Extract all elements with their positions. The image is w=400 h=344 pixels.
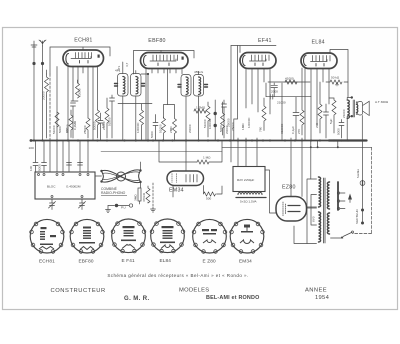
svg-text:1,5MΩ: 1,5MΩ: [196, 106, 206, 110]
capacitor C7: [153, 115, 158, 141]
svg-text:200: 200: [315, 123, 319, 128]
resistor R11: [206, 102, 210, 137]
trimmer capacitor CV1: [49, 199, 56, 210]
svg-text:RADIO-PHONO: RADIO-PHONO: [101, 191, 126, 195]
svg-text:5+2Ω 1,5VA: 5+2Ω 1,5VA: [240, 200, 258, 204]
svg-text:100000: 100000: [247, 117, 251, 128]
antenna input A2: [39, 40, 46, 141]
resistor R22 1Mohm: [197, 141, 222, 165]
svg-text:0,1MΩ: 0,1MΩ: [73, 120, 77, 130]
svg-text:EBF80: EBF80: [148, 38, 165, 44]
capacitor C5: [110, 95, 115, 138]
svg-text:21000: 21000: [342, 109, 346, 118]
svg-text:4,7: 4,7: [125, 62, 129, 67]
svg-text:EL84: EL84: [160, 258, 172, 263]
wire screen line: [268, 81, 310, 83]
wire EM34 grid: [173, 141, 186, 198]
resistor R9: [162, 117, 166, 141]
resistor R23 500: [204, 186, 223, 197]
resistor R19: [329, 98, 336, 133]
svg-text:EL84: EL84: [312, 40, 325, 46]
capacitor C13 21000: [270, 95, 273, 100]
wire long left of EF41: [230, 46, 232, 163]
svg-text:6V3: 6V3: [312, 216, 316, 222]
node mains taps: [310, 141, 339, 180]
svg-text:2MΩ: 2MΩ: [169, 126, 173, 133]
tube EBF80 envelope: [141, 53, 189, 69]
svg-text:EM34: EM34: [239, 259, 252, 264]
svg-text:5000: 5000: [38, 164, 42, 171]
svg-text:P.U: P.U: [121, 206, 126, 210]
wire T3 secondary: [356, 102, 358, 114]
resistor R3: [76, 80, 80, 98]
filter choke L1: [238, 193, 262, 195]
tube labels: [74, 37, 325, 193]
resistor R6: [96, 110, 100, 138]
wire bloc feeds: [50, 141, 88, 173]
antenna input A1: [31, 41, 37, 141]
svg-text:CONSTRUCTEUR: CONSTRUCTEUR: [51, 288, 106, 294]
svg-text:E F41: E F41: [122, 258, 135, 263]
svg-text:MODELES: MODELES: [179, 287, 209, 293]
resistor R4: [69, 110, 73, 138]
svg-text:3MΩ: 3MΩ: [134, 194, 138, 201]
capacitor C2: [71, 103, 76, 138]
svg-text:51000: 51000: [159, 124, 163, 133]
svg-text:470kΩ: 470kΩ: [142, 192, 146, 202]
svg-text:455c/s: 455c/s: [194, 70, 204, 74]
svg-text:2000: 2000: [271, 90, 278, 94]
svg-text:EBF80: EBF80: [79, 259, 94, 264]
svg-text:20000: 20000: [102, 121, 106, 130]
svg-text:1954: 1954: [315, 295, 330, 301]
resistor R18: [318, 82, 322, 133]
capacitor C15 5000: [339, 120, 344, 139]
svg-text:5000: 5000: [337, 128, 341, 135]
svg-text:25000: 25000: [83, 125, 87, 134]
output transformer T3: [347, 96, 358, 118]
svg-text:310000: 310000: [280, 123, 284, 134]
wire EBF80 top pin: [160, 51, 162, 53]
wire EF41 pin drops: [246, 69, 270, 115]
node T1 top: [141, 73, 149, 141]
node PU terminals: [214, 100, 217, 141]
ground G2: [151, 207, 156, 212]
svg-text:ANNEE: ANNEE: [305, 287, 327, 293]
resistor R20 3Mohm: [138, 188, 141, 204]
svg-text:100000: 100000: [136, 122, 140, 133]
tube EL84 envelope: [301, 53, 337, 69]
phono jack PU: [108, 204, 133, 207]
wire mains feed: [362, 141, 364, 181]
resistor R5: [86, 118, 90, 138]
wire EL84 top lead: [330, 50, 348, 98]
svg-text:ECH81: ECH81: [39, 259, 55, 264]
switch S1: [331, 209, 365, 239]
svg-text:SECTEUR: SECTEUR: [355, 208, 359, 224]
chassis bus: [30, 139, 367, 142]
filter capacitor block 2x50uF: [233, 138, 265, 192]
wire EM34 feed: [159, 141, 197, 163]
tube EM34 envelope: [167, 171, 204, 186]
resistor R12: [221, 102, 225, 135]
resistor R10: [168, 105, 177, 142]
svg-text:780: 780: [259, 127, 263, 132]
tuning gang (dial drive): [100, 169, 141, 183]
node T4 taps: [337, 192, 345, 210]
svg-text:Schéma général des récepteurs: Schéma général des récepteurs « Bel-Ami …: [107, 273, 248, 278]
svg-text:EZ80: EZ80: [282, 185, 296, 191]
tube EF41 envelope: [240, 53, 276, 69]
svg-text:21000: 21000: [277, 101, 286, 105]
resistor R24: [194, 106, 206, 114]
wire heater run: [101, 151, 222, 153]
socket EL84: [150, 219, 185, 253]
oscillator bloc box: [35, 172, 95, 199]
wire heater run: [294, 226, 307, 244]
wire T2 leads: [186, 72, 199, 141]
capacitor C4: [93, 67, 103, 141]
wire EL84 pin drops: [305, 69, 329, 141]
wire EZ80 anode leads: [291, 138, 302, 197]
schematic small value labels: [29, 62, 389, 224]
socket EM34: [230, 219, 265, 253]
svg-text:1MΩ: 1MΩ: [241, 123, 245, 130]
svg-text:100: 100: [29, 146, 34, 150]
svg-text:fusible: fusible: [356, 169, 360, 178]
power transformer T4: [319, 177, 339, 243]
svg-text:20000: 20000: [42, 91, 46, 100]
svg-text:G.45002M: G.45002M: [66, 185, 81, 189]
svg-text:10000: 10000: [78, 88, 82, 97]
ground G1: [106, 206, 111, 213]
wire choke bar: [236, 197, 266, 199]
tube ECH81 envelope: [63, 50, 104, 67]
resistor R7: [105, 98, 109, 138]
svg-text:5µF: 5µF: [329, 118, 333, 124]
svg-text:R2V 2x50µF: R2V 2x50µF: [237, 178, 254, 182]
wire ECH81 top pin: [82, 47, 84, 50]
svg-text:BEL-AMI et RONDO: BEL-AMI et RONDO: [206, 295, 260, 301]
wire EZ80 heater: [307, 207, 317, 209]
svg-text:E Z80: E Z80: [203, 259, 216, 264]
wire EF41 grid return: [234, 46, 238, 141]
wire R1: [46, 70, 48, 138]
wire frame around EBF80: [134, 51, 195, 75]
svg-text:0,1µF: 0,1µF: [291, 126, 295, 134]
wire T4 left taps: [307, 179, 317, 244]
wire gang links: [95, 176, 141, 188]
capacitor C11: [222, 100, 227, 138]
svg-text:1 MΩ: 1 MΩ: [203, 156, 211, 160]
resistor R1: [45, 74, 49, 96]
tube EZ80 envelope: [276, 197, 307, 222]
wire EBF80 pin drops: [146, 69, 182, 141]
svg-text:A.T 360Ω: A.T 360Ω: [375, 100, 389, 104]
wire dashed AVC: [152, 183, 154, 207]
wire frame around ECH81: [50, 47, 110, 141]
socket ECH81: [30, 219, 65, 253]
wire ECH81 pin drops: [57, 67, 98, 141]
svg-text:5000: 5000: [150, 131, 154, 138]
wire EZ80 frame: [265, 170, 276, 213]
capacitor C14: [324, 104, 329, 138]
wire T1 leads: [118, 62, 152, 141]
voltage selector plug: [348, 194, 352, 200]
trimmer capacitor CV2: [79, 199, 86, 210]
svg-text:5000: 5000: [219, 125, 223, 132]
wire gang to detector: [140, 162, 142, 171]
svg-text:50000: 50000: [93, 121, 97, 130]
svg-text:25000: 25000: [231, 122, 235, 131]
resistor R16: [262, 98, 266, 131]
wire mains run: [222, 146, 372, 148]
svg-text:EM34: EM34: [169, 188, 184, 194]
resistor R8: [140, 104, 144, 141]
svg-text:51000: 51000: [203, 119, 207, 128]
svg-text:BLOC: BLOC: [47, 185, 56, 189]
svg-text:20000: 20000: [188, 124, 192, 133]
svg-text:EF41: EF41: [258, 38, 272, 44]
svg-text:20000: 20000: [225, 125, 229, 134]
svg-text:100: 100: [29, 166, 33, 171]
node bus junctions: [33, 139, 349, 141]
wire frame above EF41: [231, 46, 276, 53]
capacitor C16: [33, 141, 38, 173]
resistor R2: [55, 112, 59, 127]
resistor R21 470k: [146, 186, 150, 203]
socket EF41: [111, 219, 146, 253]
svg-text:41000: 41000: [285, 77, 294, 81]
svg-text:50 kΩ: 50 kΩ: [331, 76, 340, 80]
resistor R15: [282, 83, 299, 141]
svg-text:4F1: 4F1: [115, 69, 121, 73]
svg-text:270: 270: [297, 129, 301, 134]
svg-text:300: 300: [65, 128, 69, 133]
capacitor C12 2000: [271, 83, 278, 97]
capacitor C17: [42, 141, 47, 173]
wire AVC line: [266, 83, 311, 97]
svg-text:100000: 100000: [208, 118, 212, 129]
wire OT to bus: [347, 116, 362, 141]
socket labels: [39, 258, 252, 264]
fuse F1: [360, 181, 365, 223]
IF transformer T1: [115, 74, 145, 97]
svg-text:51000: 51000: [108, 117, 112, 126]
svg-text:G. M. R.: G. M. R.: [124, 296, 150, 302]
resistor R17: [300, 68, 304, 135]
speaker LS: [358, 101, 370, 115]
potentiometer P1 50k: [326, 80, 348, 86]
svg-text:500: 500: [206, 197, 211, 201]
svg-text:51000: 51000: [52, 125, 56, 134]
svg-text:5000: 5000: [58, 126, 62, 133]
resistor R14 41000: [285, 80, 297, 84]
socket EZ80: [192, 219, 227, 253]
wire mains drop right: [353, 147, 372, 233]
socket EBF80: [70, 219, 105, 253]
IF transformer T2: [178, 75, 208, 97]
svg-text:ECH81: ECH81: [74, 37, 92, 43]
